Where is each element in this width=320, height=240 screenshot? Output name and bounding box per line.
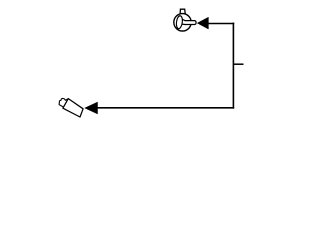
wire: right vertical lead (232, 23, 234, 109)
socket assembly (top component) (174, 9, 196, 31)
node tick on vertical lead (233, 63, 243, 65)
socket body circle (174, 14, 191, 31)
bulb body (63, 99, 83, 117)
arrow pointing at socket (top) (197, 17, 208, 29)
socket stub (182, 19, 196, 25)
arrow pointing at bulb (bottom) (85, 102, 98, 114)
wire: top horizontal lead from arrow to corner (207, 23, 234, 25)
bulb (bottom component) (59, 98, 83, 117)
socket tab (180, 9, 185, 14)
wire: bottom horizontal lead from corner to arrow (97, 107, 235, 109)
socket face ellipse (176, 15, 184, 29)
bulb neck and key bump (59, 98, 68, 107)
